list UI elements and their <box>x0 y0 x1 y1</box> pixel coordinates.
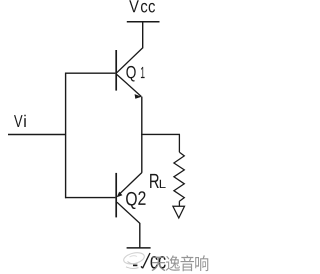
transistor Q2 emitter diagonal with arrowhead into base <box>117 173 142 198</box>
transistor Q2 base bar <box>115 173 117 218</box>
transistor Q1 emitter diagonal with arrowhead <box>117 75 142 99</box>
watermark logo swirl (white fill hides part of V) <box>123 251 146 269</box>
wire RL to ground arrow <box>178 201 180 206</box>
wire Vi input <box>8 134 66 136</box>
ground arrow open triangle <box>173 206 185 218</box>
resistor RL zigzag <box>174 152 184 201</box>
transistor Q1 base bar <box>115 50 117 91</box>
wire Q2 collector to negative rail <box>139 223 141 248</box>
wire Vcc rail to Q1 collector <box>142 22 144 49</box>
label Vcc (positive supply) <box>129 0 155 12</box>
wire Q1 emitter to output node down to Q2 emitter <box>141 97 143 173</box>
label RL <box>150 174 165 188</box>
label Q2 <box>126 191 145 209</box>
transistor Q1 collector diagonal <box>117 48 143 73</box>
watermark text tian yi yin xiang <box>152 255 209 271</box>
label Q1 <box>126 66 144 82</box>
label Vi (input) <box>14 115 26 127</box>
wire to Q2 base <box>65 197 115 199</box>
label -Vcc (negative supply) <box>133 253 166 269</box>
negative power rail <box>127 247 151 249</box>
wire output node to RL <box>141 133 180 135</box>
wire to Q1 base <box>65 72 115 74</box>
transistor Q2 collector diagonal <box>117 202 140 223</box>
wire input vertical joining both bases <box>65 73 67 199</box>
wire down to RL <box>178 134 180 152</box>
Vcc power rail <box>127 21 160 23</box>
